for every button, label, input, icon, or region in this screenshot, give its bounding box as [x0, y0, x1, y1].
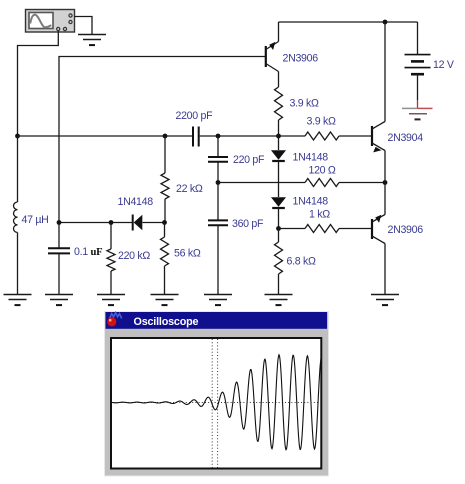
- node 220pF top: [216, 134, 221, 139]
- wire top rail: [279, 21, 418, 23]
- svg-text:3.9 kΩ: 3.9 kΩ: [290, 98, 319, 110]
- wire 22k bottom: [164, 199, 166, 223]
- transistor Q4 2N3906: [372, 215, 385, 244]
- svg-text:56 kΩ: 56 kΩ: [174, 248, 201, 260]
- wire 220k top: [110, 223, 112, 250]
- wire battery bottom: [417, 74, 419, 100]
- oscilloscope trace waveform: [112, 355, 322, 450]
- svg-text:1N4148: 1N4148: [293, 152, 329, 164]
- ground (battery, red): [402, 108, 433, 119]
- svg-text:0.1 uF: 0.1 uF: [74, 246, 102, 258]
- svg-text:2N3906: 2N3906: [388, 224, 424, 236]
- svg-text:2200 pF: 2200 pF: [176, 110, 214, 122]
- wire Q3 emitter down: [384, 151, 386, 183]
- svg-text:360 pF: 360 pF: [232, 218, 264, 230]
- node 22k top: [163, 134, 168, 139]
- wire emitter row y=182.5: [218, 182, 305, 184]
- wire D1 to D2: [278, 161, 280, 197]
- svg-text:1N4148: 1N4148: [293, 196, 329, 208]
- ground (0.1uF): [45, 295, 73, 306]
- ground (6.8k): [265, 295, 293, 306]
- wire base rail to Q1: [59, 57, 266, 223]
- wire battery ground lead (red): [417, 100, 419, 108]
- transistor Q3 2N3904: [372, 122, 385, 153]
- svg-text:220 pF: 220 pF: [233, 154, 265, 166]
- wire battery top: [417, 22, 419, 54]
- wire Q3 collector up: [384, 22, 386, 122]
- oscilloscope window: [105, 312, 329, 477]
- wire inductor bottom: [17, 232, 19, 294]
- wire Q1 collector down: [278, 72, 280, 88]
- graticule horizontal dotted line: [112, 402, 320, 404]
- wire scope right terminal to ground: [75, 17, 93, 35]
- capacitor C4 0.1 uF: [48, 248, 70, 253]
- wire R2 to Q3 base: [339, 135, 372, 137]
- diode D2 1N4148 (vertical): [271, 197, 286, 208]
- svg-text:3.9 kΩ: 3.9 kΩ: [307, 116, 336, 128]
- wire inductor top: [17, 136, 19, 202]
- node 0.1uF top: [57, 220, 62, 225]
- svg-text:22 kΩ: 22 kΩ: [176, 183, 203, 195]
- wire node to D1: [278, 136, 280, 150]
- svg-text:120 Ω: 120 Ω: [309, 165, 336, 177]
- oscilloscope instrument XSC1: [26, 10, 75, 33]
- wire bias node to 6.8k: [278, 229, 280, 243]
- svg-text:220 kΩ: 220 kΩ: [118, 250, 150, 262]
- node 220pF/360pF junction: [216, 180, 221, 185]
- wire 220k bottom: [110, 271, 112, 295]
- wire 220pF top: [217, 136, 219, 156]
- ground (Q4): [371, 295, 399, 306]
- ground (360pF): [204, 295, 232, 306]
- transistor Q1 2N3906: [266, 42, 279, 72]
- wire feedback node row: [18, 135, 193, 137]
- wire Q4 collector down: [384, 244, 386, 295]
- wire 6.8k bottom: [278, 274, 280, 295]
- graticule vertical dotted lines: [211, 339, 213, 468]
- capacitor C2 220 pF: [208, 157, 228, 162]
- wire 3.9k bottom: [278, 120, 280, 136]
- wire 360pF bottom: [217, 225, 219, 294]
- wire 56k bottom: [164, 266, 166, 295]
- svg-text:Oscilloscope: Oscilloscope: [134, 316, 199, 328]
- resistor R8 6.8 kOhm: [275, 242, 283, 274]
- resistor R6 120 Ohm: [305, 179, 339, 187]
- wire bias row: [59, 222, 132, 224]
- wire bias node to R7: [279, 228, 306, 230]
- battery V1 12 V: [405, 55, 431, 75]
- wire R6 to emitter node: [339, 182, 385, 184]
- wire Q1 emitter to top rail: [278, 22, 280, 42]
- resistor R1 3.9 kOhm (vertical): [275, 87, 283, 120]
- oscilloscope window title bar: [106, 312, 328, 329]
- wire 56k top: [164, 223, 166, 238]
- resistor R2 3.9 kOhm (horizontal): [305, 132, 339, 140]
- inductor L1 47 uH: [14, 202, 18, 232]
- svg-text:47 µH: 47 µH: [22, 214, 49, 226]
- node 220k top: [109, 220, 114, 225]
- resistor R5 56 kOhm: [161, 237, 169, 266]
- capacitor C1 2200 pF: [193, 127, 199, 147]
- ground (220k): [97, 295, 125, 306]
- svg-text:1 kΩ: 1 kΩ: [309, 209, 330, 221]
- diode D1 1N4148 (vertical): [271, 150, 286, 161]
- node top rail / Q3 collector: [383, 20, 388, 25]
- wire 360pF top: [217, 183, 219, 220]
- diode D3 1N4148 (horizontal): [133, 215, 143, 231]
- resistor R4 220 kOhm: [107, 249, 115, 271]
- node bias junction: [276, 226, 281, 231]
- svg-text:2N3906: 2N3906: [283, 53, 319, 65]
- node diode/3.9k: [276, 134, 281, 139]
- wire 0.1uF top: [58, 223, 60, 248]
- wire R7 to Q4 base: [339, 228, 372, 230]
- ground (inductor): [4, 295, 32, 306]
- node tank-left junction: [15, 134, 20, 139]
- resistor R7 1 kOhm: [305, 225, 339, 233]
- wire cap C1 right: [200, 135, 279, 137]
- node emitter junction: [383, 180, 388, 185]
- svg-text:2N3904: 2N3904: [388, 132, 424, 144]
- node 22k/56k junction: [162, 220, 167, 225]
- wire to R2: [279, 135, 306, 137]
- wire 0.1uF bottom: [58, 253, 60, 294]
- wire scope bottom terminal down-left to tank node: [18, 31, 59, 136]
- resistor R3 22 kOhm: [161, 173, 169, 199]
- svg-text:1N4148: 1N4148: [118, 196, 154, 208]
- oscilloscope display bezel: [111, 338, 321, 469]
- wire Q4 emitter up: [384, 183, 386, 215]
- wire D2 to bias node: [278, 208, 280, 229]
- wire 220pF bottom to node: [217, 162, 219, 183]
- svg-text:12 V: 12 V: [433, 59, 455, 71]
- ground (56k): [151, 295, 179, 306]
- wire 22k top: [164, 136, 166, 173]
- svg-text:6.8 kΩ: 6.8 kΩ: [287, 256, 316, 268]
- oscilloscope window icon: [107, 313, 121, 327]
- ground (scope): [78, 35, 106, 46]
- capacitor C3 360 pF: [208, 220, 228, 225]
